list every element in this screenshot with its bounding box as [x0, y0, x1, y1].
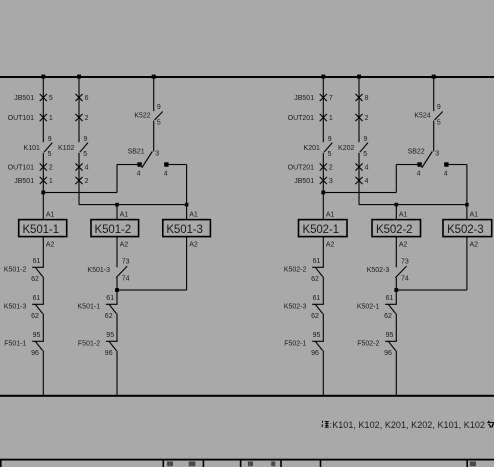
svg-text:4: 4: [417, 171, 421, 178]
svg-text:62: 62: [311, 313, 319, 320]
svg-text:9: 9: [437, 104, 441, 111]
svg-text:K502-2: K502-2: [284, 266, 307, 273]
svg-text:96: 96: [384, 350, 392, 357]
svg-text:1: 1: [49, 178, 53, 185]
svg-text:9: 9: [328, 136, 332, 143]
svg-text:3: 3: [329, 178, 333, 185]
svg-text:2: 2: [85, 115, 89, 122]
svg-text:A2: A2: [470, 242, 479, 249]
svg-text:A2: A2: [46, 242, 55, 249]
svg-text:61: 61: [313, 295, 321, 302]
svg-text:F502-2: F502-2: [357, 340, 379, 347]
svg-text:K501-3: K501-3: [166, 224, 202, 236]
svg-text:6: 6: [85, 95, 89, 102]
svg-text:F501-2: F501-2: [78, 340, 100, 347]
svg-text:OUT101: OUT101: [8, 115, 35, 122]
svg-text:A1: A1: [326, 211, 335, 218]
svg-text:3: 3: [435, 150, 439, 157]
svg-text:62: 62: [31, 276, 39, 283]
svg-text:A1: A1: [46, 211, 55, 218]
svg-text:9: 9: [364, 136, 368, 143]
svg-text:F501-1: F501-1: [4, 340, 26, 347]
svg-text:5: 5: [437, 120, 441, 127]
svg-text:K501-3: K501-3: [4, 303, 27, 310]
svg-text:A2: A2: [326, 242, 335, 249]
svg-text:95: 95: [106, 332, 114, 339]
svg-text:8: 8: [365, 95, 369, 102]
svg-text:4: 4: [365, 178, 369, 185]
svg-text:2: 2: [85, 178, 89, 185]
svg-text:5: 5: [328, 151, 332, 158]
svg-text:74: 74: [401, 276, 409, 283]
svg-text:JB501: JB501: [294, 95, 314, 102]
svg-text:4: 4: [85, 165, 89, 172]
svg-text:74: 74: [122, 276, 130, 283]
svg-text:A1: A1: [399, 211, 408, 218]
svg-text:K502-2: K502-2: [376, 224, 412, 236]
svg-text:OUT201: OUT201: [288, 165, 315, 172]
svg-text:K502-1: K502-1: [303, 224, 339, 236]
svg-text:5: 5: [157, 120, 161, 127]
svg-text:62: 62: [384, 313, 392, 320]
svg-text:K101: K101: [24, 145, 40, 152]
svg-text:F502-1: F502-1: [284, 340, 306, 347]
svg-text:A1: A1: [189, 211, 198, 218]
svg-text:K501-2: K501-2: [4, 266, 27, 273]
svg-text:K501-1: K501-1: [78, 303, 101, 310]
svg-text:2: 2: [329, 165, 333, 172]
svg-text:61: 61: [386, 295, 394, 302]
svg-text:9: 9: [157, 104, 161, 111]
svg-text:96: 96: [311, 350, 319, 357]
svg-text:JB501: JB501: [294, 178, 314, 185]
svg-text:62: 62: [105, 313, 113, 320]
svg-text:73: 73: [122, 259, 130, 266]
svg-text:SB22: SB22: [408, 148, 425, 155]
svg-text:A1: A1: [120, 211, 129, 218]
svg-text:A2: A2: [120, 242, 129, 249]
svg-text:61: 61: [313, 258, 321, 265]
svg-text:95: 95: [313, 332, 321, 339]
svg-text:2: 2: [49, 165, 53, 172]
svg-text:62: 62: [311, 276, 319, 283]
svg-text:OUT101: OUT101: [8, 165, 35, 172]
svg-text:JB501: JB501: [14, 178, 34, 185]
svg-text:SB21: SB21: [128, 148, 145, 155]
svg-text:4: 4: [365, 165, 369, 172]
svg-text:A2: A2: [189, 242, 198, 249]
svg-text:96: 96: [31, 350, 39, 357]
svg-text:4: 4: [444, 171, 448, 178]
svg-text:K501-3: K501-3: [87, 267, 110, 274]
svg-text:K502-3: K502-3: [367, 267, 390, 274]
svg-text:9: 9: [84, 136, 88, 143]
svg-text:73: 73: [401, 259, 409, 266]
svg-text:61: 61: [106, 295, 114, 302]
svg-text:1: 1: [329, 115, 333, 122]
svg-text:K522: K522: [134, 112, 150, 119]
svg-text:61: 61: [33, 295, 41, 302]
svg-text:OUT201: OUT201: [288, 115, 315, 122]
svg-text:K202: K202: [338, 145, 354, 152]
svg-text:K501-1: K501-1: [22, 224, 58, 236]
svg-text:A1: A1: [470, 211, 479, 218]
svg-text:2: 2: [365, 115, 369, 122]
svg-text:3: 3: [155, 150, 159, 157]
svg-text:K501-2: K501-2: [95, 224, 131, 236]
svg-text:K201: K201: [304, 145, 320, 152]
svg-text:5: 5: [48, 151, 52, 158]
svg-text:5: 5: [363, 151, 367, 158]
svg-text:1: 1: [49, 115, 53, 122]
svg-text:K102: K102: [58, 145, 74, 152]
svg-text:95: 95: [33, 332, 41, 339]
svg-text:7: 7: [329, 95, 333, 102]
svg-text:95: 95: [386, 332, 394, 339]
svg-text:61: 61: [33, 258, 41, 265]
svg-text:K502-3: K502-3: [447, 224, 483, 236]
svg-text:5: 5: [49, 95, 53, 102]
svg-text:4: 4: [164, 171, 168, 178]
svg-text:A2: A2: [399, 242, 408, 249]
svg-text:K101, K102, K201, K202, K101,: K101, K102, K201, K202, K101, K102: [332, 420, 485, 430]
svg-text:K524: K524: [414, 112, 430, 119]
svg-text:4: 4: [137, 171, 141, 178]
svg-text:K502-1: K502-1: [357, 303, 380, 310]
svg-text:62: 62: [31, 313, 39, 320]
svg-text:9: 9: [48, 136, 52, 143]
svg-text:K502-3: K502-3: [284, 303, 307, 310]
svg-text:96: 96: [105, 350, 113, 357]
svg-text:5: 5: [83, 151, 87, 158]
svg-text:JB501: JB501: [14, 95, 34, 102]
